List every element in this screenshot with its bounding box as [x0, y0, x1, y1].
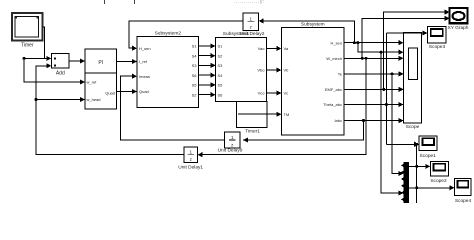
wire H_sen jog to scope2nd and Mux	[358, 43, 401, 193]
block Mux	[401, 162, 409, 203]
arrowhead XY in2	[445, 16, 450, 21]
wire EMF line	[344, 88, 401, 90]
arrowhead w_ref	[80, 79, 85, 84]
svg-text:Unit Delay1: Unit Delay1	[178, 165, 203, 171]
junction W_mech to delay1	[365, 57, 368, 60]
arrowhead mux in upper	[399, 171, 404, 176]
arrowhead S6	[211, 92, 216, 97]
wire Mux to Scope2	[409, 165, 427, 167]
junction w_head branch	[35, 98, 38, 101]
svg-text:Scope4: Scope4	[455, 198, 472, 203]
wire Vao Vbo Vco	[267, 47, 279, 49]
svg-text:EMF_abc: EMF_abc	[325, 87, 342, 92]
wire Iabc line	[344, 120, 401, 122]
arrowhead H_sen in	[132, 46, 137, 51]
junction jog to mux	[380, 51, 383, 54]
wire Add to PI	[69, 60, 82, 62]
arrowhead S4	[211, 73, 216, 78]
arrowhead unit delay1 in	[198, 152, 203, 157]
svg-text:S3: S3	[192, 63, 198, 68]
junction Te to mux	[391, 72, 394, 75]
arrowhead scope in6	[399, 102, 404, 107]
wire to Scope4	[409, 144, 452, 203]
svg-text:Quad: Quad	[105, 91, 115, 96]
svg-text:Vbo: Vbo	[257, 68, 265, 73]
wire Te to Mux	[392, 74, 401, 174]
arrowhead PI in	[80, 58, 85, 63]
arrowheads	[46, 10, 454, 196]
svg-text:Scope3: Scope3	[429, 44, 446, 50]
svg-text:S6: S6	[192, 73, 198, 78]
arrowhead S2	[211, 53, 216, 58]
block Subsystem2	[137, 31, 199, 108]
arrowhead scope in5	[399, 87, 404, 92]
svg-text:Iabc: Iabc	[334, 118, 342, 123]
svg-text:Scope1: Scope1	[420, 153, 437, 159]
junction mux out wire	[415, 165, 418, 168]
block Scope3	[428, 27, 447, 51]
arrowhead scope in3	[399, 56, 404, 61]
svg-text:H_sen: H_sen	[139, 46, 151, 51]
wire H_sen to UD2 feedback	[129, 21, 354, 48]
wire UD1 feedback to Add2 and w_head	[36, 66, 184, 155]
svg-text:Theta_abc: Theta_abc	[323, 102, 342, 107]
arrowhead Vb	[276, 68, 281, 73]
svg-text:S1: S1	[218, 44, 224, 49]
svg-text:S4: S4	[192, 53, 198, 58]
wire Timer1 to TM	[267, 113, 278, 115]
svg-text:Quad: Quad	[139, 89, 149, 94]
arrowhead TM	[276, 112, 281, 117]
svg-text:PI: PI	[98, 60, 103, 66]
arrowhead scope in1	[399, 40, 404, 45]
svg-text:Subsystem2: Subsystem2	[155, 31, 182, 37]
svg-text:S2: S2	[218, 53, 224, 58]
arrowhead I_ref	[132, 59, 137, 64]
arrowhead Scope2 in	[425, 164, 430, 169]
arrowhead Imeas	[132, 74, 137, 79]
svg-text:.............y:: .............y:	[234, 0, 265, 5]
wire S1	[199, 45, 213, 47]
wire branch to w_ref	[24, 58, 82, 82]
svg-text:S4: S4	[218, 73, 224, 78]
wire EMF to XY1	[384, 12, 447, 89]
junction Scope1 wire	[415, 143, 418, 146]
arrowhead scope in4	[399, 71, 404, 76]
wire W_mech to XY2	[362, 18, 446, 58]
junction Timer branch	[23, 57, 26, 60]
block Timer	[12, 13, 43, 49]
svg-text:Scope2: Scope2	[430, 178, 447, 184]
arrowhead Scope4 in	[450, 185, 455, 190]
block Scope2	[430, 161, 448, 184]
svg-text:Vao: Vao	[258, 46, 266, 51]
svg-text:Timer: Timer	[21, 43, 34, 49]
arrowhead Add in1	[46, 56, 51, 61]
wire PI to I_ref	[117, 61, 134, 63]
svg-text:TM: TM	[284, 112, 290, 117]
cropped text ticks top	[104, 0, 265, 5]
arrowhead Quad in	[132, 89, 137, 94]
arrowhead scope in2	[399, 50, 404, 55]
svg-text:S1: S1	[192, 44, 198, 49]
arrowhead mux in lower	[399, 190, 404, 195]
block Scope (tall)	[404, 32, 422, 130]
junction W_mech to XY	[361, 57, 364, 60]
svg-text:S6: S6	[218, 92, 224, 97]
svg-text:S5: S5	[218, 83, 224, 88]
junction EMF to XY	[382, 88, 385, 91]
arrowhead Add in2	[46, 63, 51, 68]
arrowhead S1	[211, 43, 216, 48]
arrowhead Vc	[276, 90, 281, 95]
arrowhead unit delay9 in	[243, 137, 248, 142]
block Subsystem (motor)	[281, 22, 344, 135]
svg-text:Vc: Vc	[284, 91, 289, 96]
svg-text:Unit Delay2: Unit Delay2	[240, 31, 265, 37]
svg-text:S5: S5	[192, 83, 198, 88]
block Subsystem1 (inverter)	[216, 31, 267, 102]
block Unit Delay1	[178, 147, 203, 171]
block Timer1	[237, 102, 267, 135]
wire Timer to Add	[43, 27, 49, 58]
block Scope1	[419, 136, 437, 159]
svg-text:W_mech: W_mech	[326, 56, 342, 61]
arrowhead Scope1 in	[414, 142, 419, 147]
svg-text:Imeas: Imeas	[139, 74, 150, 79]
svg-text:S3: S3	[218, 63, 224, 68]
wire H_sen line	[344, 42, 401, 44]
svg-text:Timer1: Timer1	[245, 129, 260, 135]
junction H_sen to delay	[353, 41, 356, 44]
wires below	[24, 12, 452, 203]
svg-text:XY Graph: XY Graph	[448, 25, 469, 31]
svg-text:w_head: w_head	[87, 97, 101, 102]
wire W_mech line	[344, 57, 401, 59]
arrowhead scope in7	[399, 118, 404, 123]
arrowhead Va	[276, 46, 281, 51]
wire S4-S2	[199, 55, 213, 57]
svg-text:Vco: Vco	[258, 91, 266, 96]
svg-text:Add: Add	[56, 71, 65, 77]
wire Iabc to UD9	[243, 121, 364, 140]
wire Te line	[344, 73, 401, 75]
wire Theta to Scope3 and Scope1	[386, 33, 424, 145]
block Scope4	[455, 179, 472, 205]
wire Theta line	[344, 104, 401, 106]
junction Scope4 wire	[415, 186, 418, 189]
block PI	[85, 49, 117, 109]
block XY Graph	[448, 8, 469, 31]
svg-text:Vb: Vb	[284, 68, 290, 73]
wire Quad to Quad	[117, 91, 134, 93]
junction Iabc to delay9	[362, 119, 365, 122]
block unit delay2 (1/z top)	[240, 13, 265, 37]
arrowhead XY in1	[445, 10, 450, 15]
arrowhead unit delay2 in	[259, 18, 264, 23]
svg-text:Va: Va	[284, 46, 289, 51]
wire W_mech to UD1	[201, 58, 367, 154]
arrowhead S5	[211, 82, 216, 87]
junction Theta branch	[385, 103, 388, 106]
svg-text:Subsystem: Subsystem	[301, 22, 325, 28]
block Add	[51, 54, 69, 77]
wire UD9 to Imeas	[121, 76, 225, 140]
arrowhead Scope3 in	[423, 30, 428, 35]
svg-text:Unit Delay9: Unit Delay9	[218, 148, 243, 154]
arrowhead S3	[211, 63, 216, 68]
arrowhead w_head	[80, 97, 85, 102]
block Unit Delay9	[218, 132, 243, 154]
svg-text:H_sen: H_sen	[330, 40, 342, 45]
svg-text:Scope: Scope	[406, 124, 420, 130]
junction H_sen jog	[356, 41, 359, 44]
svg-text:I_ref: I_ref	[139, 59, 148, 64]
svg-text:w_ref: w_ref	[87, 80, 98, 85]
svg-text:S2: S2	[192, 92, 198, 97]
